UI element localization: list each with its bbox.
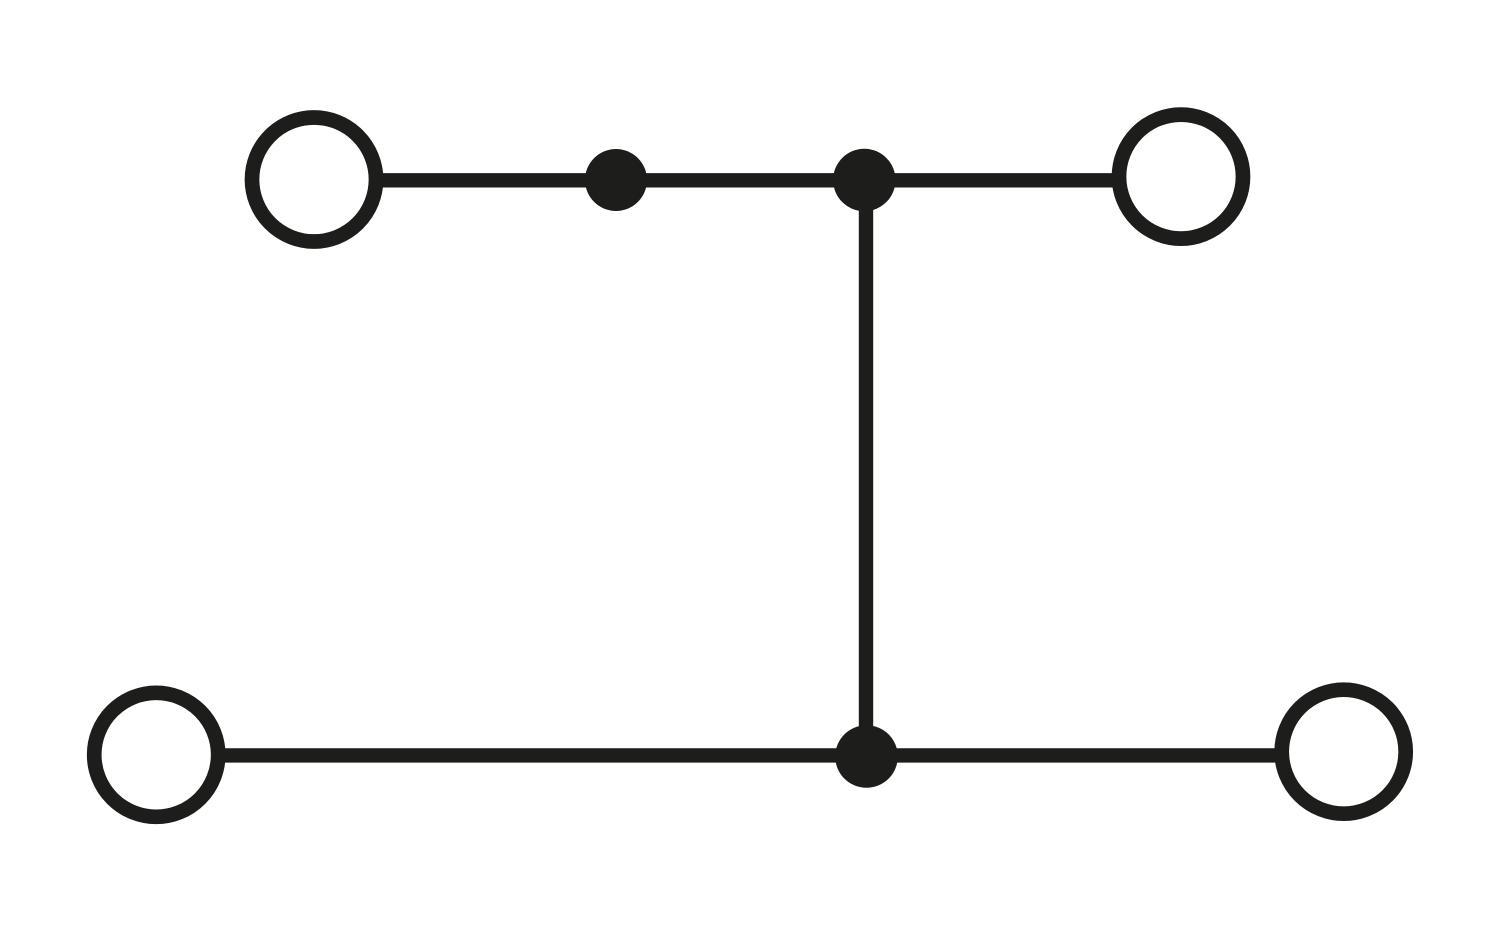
- wire: top horizontal rail: [379, 173, 1116, 187]
- wire: vertical link between rails: [859, 180, 873, 756]
- junction dot on top rail (disconnect point): [585, 149, 647, 211]
- junction node: bottom rail to vertical link: [835, 725, 898, 788]
- terminal circle: bottom-right clamp point: [1282, 690, 1406, 814]
- terminal circle: top-right clamp point: [1119, 115, 1243, 239]
- wire: bottom horizontal rail: [222, 748, 1277, 762]
- junction node: top rail to vertical link: [833, 149, 895, 211]
- terminal circle: bottom-left clamp point: [94, 693, 218, 817]
- terminal circle: top-left clamp point: [252, 118, 376, 242]
